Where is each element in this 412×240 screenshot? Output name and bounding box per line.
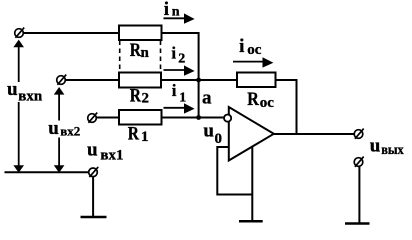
svg-text:2: 2 — [178, 52, 185, 67]
resistor R1 — [119, 110, 162, 125]
svg-text:n: n — [141, 45, 150, 61]
wire op-amp output — [274, 133, 354, 135]
ground left — [81, 216, 107, 219]
label i_n — [164, 0, 180, 20]
svg-text:ос: ос — [260, 95, 275, 111]
wire common terminal to ground — [92, 177, 94, 217]
voltage arrow u_vx2 — [54, 87, 65, 173]
svg-text:u: u — [48, 118, 59, 139]
node a junction — [196, 115, 201, 120]
ground output — [345, 222, 370, 225]
svg-text:R: R — [247, 89, 259, 110]
label u_0 — [203, 121, 222, 147]
terminal input n — [15, 28, 25, 38]
op-amp inverting input circle — [224, 115, 231, 122]
current arrow i_2 — [164, 65, 195, 75]
voltage arrow u_vxn — [13, 40, 24, 173]
label Roc — [247, 89, 274, 111]
svg-text:1: 1 — [141, 129, 149, 145]
terminal input 1 — [88, 113, 98, 123]
wire input 1 row left — [96, 117, 119, 119]
current arrow i_oc — [233, 57, 273, 67]
wire op-amp ground line — [251, 146, 253, 221]
op-amp U1 — [229, 107, 274, 161]
wire common rail — [5, 171, 89, 173]
svg-text:R: R — [128, 124, 139, 145]
wire input n row left — [23, 32, 119, 34]
svg-text:ос: ос — [247, 42, 262, 58]
label R1 — [128, 124, 149, 146]
svg-text:вх2: вх2 — [60, 124, 80, 139]
wire input 2 row right — [161, 79, 199, 81]
resistor R2 — [119, 73, 161, 88]
svg-text:u: u — [203, 121, 214, 142]
label R2 — [130, 85, 149, 106]
svg-text:вх1: вх1 — [100, 147, 123, 163]
svg-text:1: 1 — [179, 90, 186, 105]
wire input n row right to bus — [162, 33, 199, 118]
svg-text:u: u — [7, 79, 18, 100]
wire input 1 row right to node a — [162, 117, 225, 119]
resistor Rn — [119, 26, 162, 41]
wire noninverting input loop — [217, 147, 252, 195]
current arrow i_1 — [164, 103, 195, 113]
svg-text:n: n — [172, 4, 180, 19]
label node a — [202, 87, 212, 108]
svg-text:вых: вых — [381, 143, 404, 158]
svg-text:2: 2 — [142, 91, 150, 107]
label i_1 — [172, 81, 186, 106]
terminal output bottom — [354, 157, 364, 167]
resistor Roc — [237, 73, 276, 88]
terminal output top — [354, 129, 364, 139]
label u_vx2 — [47, 118, 81, 139]
terminal input 2 — [57, 75, 66, 85]
label u_vyx — [370, 136, 404, 159]
label u_vxn — [5, 79, 44, 104]
svg-text:a: a — [202, 87, 212, 108]
wire output lower terminal to ground — [358, 167, 360, 223]
node junction at R2/Roc — [196, 78, 201, 83]
wire node a to R_oc — [199, 79, 237, 81]
svg-text:R: R — [130, 85, 141, 106]
svg-text:u: u — [370, 136, 381, 157]
label Rn — [130, 40, 150, 61]
label i_2 — [171, 44, 185, 67]
svg-text:0: 0 — [215, 131, 223, 147]
svg-text:i: i — [172, 81, 177, 100]
svg-text:i: i — [171, 44, 176, 63]
wire input 2 row left — [65, 79, 119, 81]
dashed continuation lines — [120, 41, 161, 73]
current arrow i_n — [164, 13, 195, 23]
svg-text:i: i — [239, 36, 244, 57]
label i_oc — [239, 36, 262, 58]
svg-text:вхn: вхn — [18, 88, 43, 104]
svg-text:i: i — [164, 0, 169, 20]
label u_vx1 — [87, 140, 124, 164]
wire R_oc right to output — [276, 80, 297, 134]
terminal common — [89, 167, 99, 177]
ground op-amp — [239, 220, 263, 223]
svg-text:u: u — [87, 140, 98, 161]
svg-text:R: R — [130, 40, 141, 61]
